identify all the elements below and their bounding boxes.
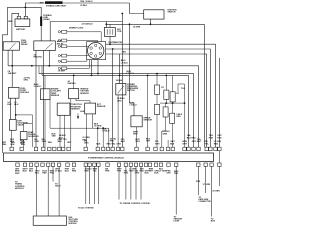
svg-text:PNKGRY: PNKGRY — [166, 171, 171, 175]
wire left main vertical — [2, 7, 7, 153]
spark plug P2 — [58, 39, 60, 41]
wire to sensor light — [175, 166, 177, 214]
spark plug P4 — [58, 55, 60, 57]
junction rail drop 1 — [97, 127, 99, 129]
PCM pin bottom 11 — [84, 163, 87, 166]
svg-text:BLK: BLK — [96, 144, 101, 146]
svg-text:PNKBLK: PNKBLK — [20, 141, 25, 145]
PCM pin bottom 9 — [66, 163, 69, 166]
PCM pin top 10 — [84, 147, 87, 150]
wire DLC 1 — [197, 166, 199, 195]
ECT sensor — [85, 103, 96, 114]
wire R5 out — [165, 117, 167, 131]
junction R1 — [156, 73, 158, 75]
junction bus 3 — [184, 102, 186, 104]
fusible link label block — [45, 1, 63, 4]
wire R3-R6 — [172, 102, 174, 113]
wire spark plug P4 lead — [67, 55, 89, 57]
junction fuel pump feed — [11, 65, 13, 67]
PCM pin top 3 — [34, 147, 37, 150]
connector block C101 — [33, 216, 66, 225]
junction pickup 1 — [91, 75, 93, 77]
PCM pin bottom 6 — [47, 163, 50, 166]
ASD relay K2 — [34, 41, 56, 51]
heated oxygen sensor — [69, 89, 79, 99]
wire rail link a — [38, 66, 40, 74]
svg-text:ORG: ORG — [116, 144, 121, 146]
ground arrow TPS — [77, 114, 79, 117]
wire EGR feed rail — [16, 115, 33, 147]
PCM pin bottom 29 — [210, 163, 213, 166]
PCM pin top 2 — [20, 147, 23, 150]
distributor cap housing — [87, 42, 106, 60]
wire coil to distributor — [109, 36, 111, 44]
svg-text:BLKTAN: BLKTAN — [52, 133, 57, 137]
svg-text:GRY: GRY — [67, 142, 72, 144]
wire rail 16A WHT — [8, 66, 198, 147]
wire spark plug P6 lead — [67, 60, 90, 69]
wire AC 3 — [93, 166, 95, 204]
svg-text:SPARK PLUGS: SPARK PLUGS — [69, 27, 84, 30]
wire rail drop 2 — [102, 128, 104, 147]
PCM pin top 9 — [67, 147, 70, 150]
junction trunk B — [121, 13, 123, 15]
PCM pin top 4 — [42, 147, 45, 150]
PCM pin top 26 — [197, 147, 200, 150]
wire network top corner — [178, 84, 185, 147]
wire ignition feed to ASD relay — [49, 22, 51, 41]
wire O2 out 1 — [70, 99, 72, 148]
svg-text:20 BLU: 20 BLU — [86, 1, 93, 3]
fusible link F2 thick bar — [40, 17, 42, 27]
svg-text:BATTERY: BATTERY — [16, 28, 26, 31]
PCM pin bottom 10 — [72, 163, 75, 166]
engine coolant temp sensor — [41, 89, 51, 100]
junction ignition feed — [150, 23, 152, 25]
wire trunk B down — [121, 14, 123, 148]
PCM pin bottom 25 — [167, 163, 170, 166]
junction coil secondary — [109, 43, 111, 45]
wire AC 4 — [97, 166, 99, 204]
throttle position sensor — [57, 103, 70, 115]
wire distributor rail A — [106, 44, 216, 147]
PCM pin bottom 30 — [218, 163, 221, 166]
svg-text:18 WHT: 18 WHT — [58, 71, 66, 73]
wire right edge bypass — [218, 151, 220, 163]
junction rail ASD — [48, 65, 50, 67]
svg-text:RED: RED — [40, 2, 45, 4]
junction coil feed — [105, 23, 107, 25]
EGR solenoid valve — [10, 120, 17, 131]
wire to trans module 2 — [47, 166, 49, 216]
wire R5 jog — [162, 130, 166, 132]
svg-text:18 GRN: 18 GRN — [133, 27, 141, 29]
vehicle speed sensor — [131, 116, 142, 127]
wire fuel pump relay out — [7, 50, 9, 66]
spark plug P6 — [58, 67, 60, 69]
distributor terminals — [94, 55, 97, 58]
wire cruise 4 — [135, 166, 137, 199]
wire network top drop — [177, 84, 179, 92]
wire AC 1 — [85, 166, 87, 204]
PCM pin top 16 — [121, 147, 124, 150]
PCM pin top 23 — [183, 147, 186, 150]
power steering pressure switch — [116, 84, 126, 95]
wire battery pos feed — [25, 3, 44, 16]
PCM pin bottom 15 — [106, 163, 109, 166]
wire drop to ignition switch — [130, 3, 144, 14]
wire resistor bus — [160, 102, 185, 104]
PCM pin top 11 — [96, 147, 99, 150]
PCM pin top 5 — [48, 147, 51, 150]
svg-text:LT GRN: LT GRN — [203, 184, 211, 186]
wire ECT out 1 — [86, 114, 88, 147]
svg-text:WHTORG: WHTORG — [135, 139, 140, 143]
wire fuel pump gnd — [9, 98, 11, 119]
PCM pin top 14 — [111, 147, 114, 150]
coil winding 1 — [106, 29, 108, 35]
wire EGR out — [11, 130, 13, 147]
PCM pin top 8 — [62, 147, 65, 150]
PCM pin top 15 — [116, 147, 119, 150]
PCM pin bottom 26 — [175, 163, 178, 166]
ignition coil T1 — [105, 27, 116, 36]
wire R4 out — [156, 115, 158, 148]
wire battery neg to fuel pump relay — [12, 13, 19, 42]
ASD relay contact — [46, 43, 53, 50]
svg-text:PNK: PNK — [196, 181, 201, 183]
wire to coolant sensor — [44, 75, 46, 88]
wire far right rail — [218, 58, 220, 147]
PCM pin top 19 — [154, 147, 157, 150]
PCM pin top 20 — [160, 147, 163, 150]
wire top feed to ignition switch — [63, 2, 130, 4]
svg-text:FUSIBLE LINK GRAY: FUSIBLE LINK GRAY — [46, 4, 67, 7]
junction trunk C — [129, 23, 131, 25]
fuel pump module M1 — [9, 87, 20, 98]
PCM pin top 22 — [171, 147, 174, 150]
svg-text:RED: RED — [8, 21, 13, 23]
PCM pin bottom 4 — [35, 163, 38, 166]
junction rail fuel — [31, 65, 33, 67]
fuel pump relay contact — [10, 43, 16, 50]
resistor R2 — [164, 90, 169, 99]
wire bottom right — [211, 166, 213, 216]
junction bus 1 — [165, 102, 167, 104]
wire ignition feed right rail — [106, 23, 204, 25]
junction PSP — [119, 75, 121, 77]
PCM pin bottom 3 — [29, 163, 32, 166]
wire AC 2 — [89, 166, 91, 204]
PCM pin bottom 14 — [97, 163, 100, 166]
PCM pin bottom 28 — [204, 163, 207, 166]
fuel pump relay K1 — [3, 42, 19, 50]
PCM pin top 17 — [135, 147, 138, 150]
PCM pin bottom 8 — [57, 163, 60, 166]
wire coil feed 1 — [105, 22, 107, 28]
wire PSP out — [117, 95, 119, 147]
PCM pin top 18 — [146, 147, 149, 150]
coil winding 3 — [112, 29, 114, 35]
spark plug P5 — [58, 60, 60, 62]
wire R1-R4 — [156, 94, 158, 104]
svg-text:TO A/C SYSTEM: TO A/C SYSTEM — [78, 207, 94, 210]
wire pin stub 168 — [167, 140, 169, 147]
wire cruise 2 — [125, 166, 127, 199]
PCM pin bottom 22 — [148, 163, 151, 166]
junction sensor return — [147, 75, 149, 77]
PCM pin top 1 — [10, 147, 13, 150]
wire R5 top — [165, 103, 167, 107]
resistor R3 — [170, 92, 175, 102]
svg-text:TO CRUISE CONTROL SYSTEM: TO CRUISE CONTROL SYSTEM — [120, 203, 150, 205]
PCM pin bottom 5 — [41, 163, 44, 166]
PCM pin top 30 — [218, 147, 221, 150]
svg-text:J2 18A BLU: J2 18A BLU — [82, 23, 94, 26]
PCM pin bottom 1 — [16, 163, 19, 166]
wire to fuel pump module — [11, 50, 13, 87]
PSP switch contact — [118, 86, 124, 93]
wire rail sensor supply — [42, 75, 189, 147]
PCM pin bottom 27 — [197, 163, 200, 166]
junction rail drop 2 — [102, 127, 104, 129]
wire R3 top — [172, 75, 174, 91]
wire R6 out — [172, 123, 174, 147]
wire speed sensor out — [136, 127, 138, 147]
junction R2 — [165, 75, 167, 77]
PCM pin bottom 18 — [129, 163, 132, 166]
wire R2 bottom — [165, 99, 167, 103]
wire sensor ground rail — [50, 128, 109, 147]
PCM pin bottom 24 — [159, 163, 162, 166]
wire spark plug P3 lead — [67, 45, 89, 47]
PCM pin top 29 — [214, 147, 217, 150]
wire ASD relay output — [48, 51, 50, 66]
wire rail drop 1 — [97, 128, 99, 147]
EVAP purge solenoid — [20, 132, 27, 140]
spark plug P1 — [58, 31, 60, 33]
wire distributor rail B — [106, 49, 211, 147]
wire PSP feed — [119, 54, 121, 84]
svg-text:20 BLU: 20 BLU — [80, 5, 87, 7]
wire to trans module 3 — [58, 166, 60, 216]
svg-text:PNKBLU: PNKBLU — [65, 169, 70, 173]
spark plug P3 — [58, 45, 60, 47]
svg-text:TPS: TPS — [63, 139, 68, 141]
wire distributor pickup 1 — [91, 60, 93, 76]
PCM pin bottom 23 — [154, 163, 157, 166]
distributor circle — [88, 43, 104, 59]
wire sensor return trunk — [147, 75, 149, 147]
powertrain control module U1 — [4, 153, 214, 162]
battery B1 — [15, 19, 30, 27]
wire O2 feed — [73, 75, 75, 88]
PCM pin bottom 13 — [93, 163, 96, 166]
PCM pin top 24 — [187, 147, 190, 150]
wire rail sensor ground — [39, 74, 194, 148]
wire rail link b — [41, 66, 43, 76]
wire rail up coolant — [49, 100, 51, 129]
wire coolant sensor down — [44, 100, 46, 148]
PCM pin top 7 — [58, 147, 61, 150]
wire TPS out 2 — [64, 115, 66, 147]
wire distributor pickup 2 — [97, 60, 99, 74]
wire EVAP out — [23, 140, 25, 148]
junction EGR feed — [15, 114, 17, 116]
PCM pin top 21 — [166, 147, 169, 150]
PCM pin top 25 — [192, 147, 195, 150]
ignition switch S1 — [144, 10, 164, 19]
wire spark plug P1 lead — [67, 32, 101, 42]
wire ASD relay pin 2 down — [42, 51, 44, 148]
resistor R5 — [163, 107, 168, 117]
battery terminal - — [24, 16, 27, 19]
svg-text:POWERTRAIN CONTROL MODULE: POWERTRAIN CONTROL MODULE — [88, 157, 124, 160]
wire EVAP branch — [24, 123, 33, 125]
wire cruise 3 — [130, 166, 132, 199]
junction battery feed 2 — [25, 7, 27, 9]
PCM pin top 13 — [106, 147, 109, 150]
PCM pin top 27 — [205, 147, 208, 150]
resistor R4 — [155, 104, 160, 114]
svg-text:TAN: TAN — [80, 0, 85, 3]
coil winding 2 — [109, 29, 111, 35]
wire spark plug P5 lead — [67, 60, 87, 62]
wire O2 out to ECT — [76, 99, 90, 103]
wire DLC 2 — [205, 166, 207, 193]
junction trunk A — [112, 48, 114, 50]
PCM pin top 6 — [53, 147, 56, 150]
wire EVAP feed — [23, 124, 25, 132]
PCM pin bottom 7 — [51, 163, 54, 166]
svg-text:TAN: TAN — [48, 141, 53, 144]
PCM pin bottom 19 — [134, 163, 137, 166]
PCM pin top 12 — [102, 147, 105, 150]
svg-text:GRYRED: GRYRED — [217, 135, 222, 139]
svg-text:TLB: TLB — [181, 88, 185, 90]
svg-text:HEATEDOXYGENSENSOR: HEATEDOXYGENSENSOR — [80, 88, 89, 95]
wire cruise 1 — [118, 166, 120, 199]
wire ignition switch drop — [150, 19, 152, 24]
svg-text:20 GRN: 20 GRN — [212, 191, 220, 193]
wire to ASD relay via fusible link — [7, 7, 41, 41]
svg-text:18 BLK: 18 BLK — [116, 80, 123, 82]
wire fuel pump feed — [15, 98, 17, 119]
wire TPS out 1 — [59, 115, 61, 147]
PCM pin bottom 12 — [88, 163, 91, 166]
wire R1 top — [156, 74, 158, 85]
wire coil feed 2 — [109, 24, 111, 27]
wire R5 out drop — [161, 131, 163, 147]
wire cruise 5 — [140, 166, 142, 199]
wire ASD relay pin 1 down — [35, 51, 37, 148]
wire R2 top — [165, 75, 167, 90]
PCM pin bottom 17 — [124, 163, 127, 166]
resistor R6 — [170, 113, 175, 123]
wire ignition run feed — [50, 21, 122, 23]
wire ECT out 2 — [92, 114, 94, 128]
wire spark plug P2 lead — [67, 41, 98, 42]
wire trunk C to speed sensor — [130, 24, 135, 116]
PCM pin top 28 — [209, 147, 212, 150]
wire right rail 1 down — [203, 24, 205, 147]
wire to tach — [52, 166, 54, 181]
wire distributor rail C — [106, 54, 207, 147]
battery terminal + — [17, 16, 20, 19]
PCM pin bottom 20 — [139, 163, 142, 166]
wire trunk A down — [112, 49, 114, 147]
PCM pin bottom 21 — [144, 163, 147, 166]
wire to trans module 1 — [36, 166, 38, 216]
junction O2 feed — [73, 75, 75, 77]
junction bus 2 — [172, 102, 174, 104]
PCM pin bottom 16 — [117, 163, 120, 166]
wire far right stub — [218, 166, 220, 186]
PCM pin bottom 2 — [23, 163, 26, 166]
junction pickup 2 — [97, 73, 99, 75]
resistor R1 — [155, 85, 160, 94]
